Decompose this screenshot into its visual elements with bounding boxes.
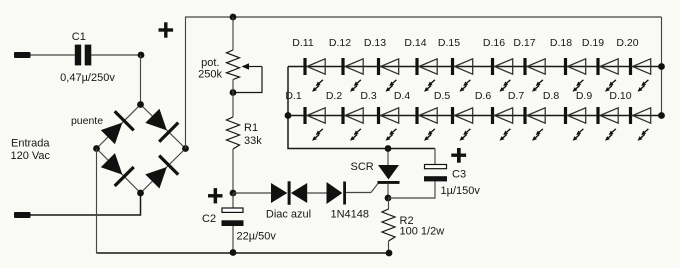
node: bridge top: [137, 101, 144, 108]
wire: [91, 54, 141, 56]
svg-text:D.18: D.18: [550, 37, 572, 49]
node: right column top row: [658, 63, 665, 70]
LED D.9: [576, 90, 618, 141]
LED D.14: [404, 37, 437, 92]
wire: [31, 54, 75, 56]
LED D.20: [616, 37, 650, 92]
diode bridge bottom-left: [98, 151, 135, 188]
svg-text:D.6: D.6: [475, 90, 492, 102]
LED D.4: [394, 90, 437, 141]
svg-text:C1: C1: [72, 31, 86, 43]
diode bridge bottom-right: [143, 154, 180, 191]
wire: bridge minus down: [96, 149, 98, 254]
LED D.10: [609, 90, 650, 141]
svg-text:Diac azul: Diac azul: [266, 209, 311, 221]
LED D.12: [329, 37, 363, 92]
svg-text:SCR: SCR: [351, 161, 374, 173]
wire: top LED row: [288, 66, 662, 68]
svg-text:D.19: D.19: [582, 37, 604, 49]
svg-text:Entrada: Entrada: [11, 138, 50, 150]
svg-text:D.1: D.1: [285, 90, 302, 102]
terminal: AC input line 2: [14, 212, 31, 218]
wire: bridge plus up to top rail: [186, 17, 662, 149]
LED D.3: [360, 90, 398, 141]
LED D.2: [326, 90, 363, 141]
svg-text:D.10: D.10: [609, 90, 631, 102]
svg-text:0,47µ/250v: 0,47µ/250v: [60, 72, 115, 84]
svg-text:C2: C2: [202, 213, 216, 225]
svg-text:D.9: D.9: [576, 90, 593, 102]
svg-text:C3: C3: [452, 169, 466, 181]
diac Diac azul: [266, 181, 311, 220]
svg-text:22µ/50v: 22µ/50v: [237, 231, 277, 243]
svg-text:1N4148: 1N4148: [331, 209, 370, 221]
LED D.8: [543, 90, 586, 141]
wire: bridge edge left-top: [97, 105, 141, 149]
svg-text:D.4: D.4: [394, 90, 411, 102]
node: right column bottom row: [658, 112, 665, 119]
svg-text:D.14: D.14: [404, 37, 426, 49]
svg-text:D.5: D.5: [434, 90, 451, 102]
svg-text:D.17: D.17: [513, 37, 535, 49]
LED D.13: [364, 37, 399, 92]
node: bridge right: [182, 145, 189, 152]
wire: right column: [661, 17, 663, 116]
svg-text:250k: 250k: [198, 69, 222, 81]
svg-text:pot.: pot.: [201, 57, 219, 69]
svg-text:1µ/150v: 1µ/150v: [441, 185, 481, 197]
svg-text:33k: 33k: [244, 135, 262, 147]
LED D.5: [434, 90, 473, 141]
svg-text:D.16: D.16: [483, 37, 505, 49]
wire: [232, 80, 234, 118]
plus sign C2 polarity: [208, 188, 223, 203]
wire: [346, 192, 371, 194]
diode 1N4148: [327, 182, 370, 221]
node: left column bottom row: [285, 112, 292, 119]
wire: bottom rail: [97, 252, 390, 254]
wire: [233, 192, 271, 194]
wire: LED array left column to SCR rail: [288, 116, 435, 149]
wire: bottom LED row: [288, 115, 662, 117]
wire: LED array left column: [287, 67, 289, 116]
LED D.18: [550, 37, 586, 92]
capacitor C2 22u/50v: [202, 193, 276, 253]
wire: bridge edge left-bottom: [97, 149, 141, 194]
svg-text:D.20: D.20: [616, 37, 638, 49]
plus sign: rectified positive: [159, 22, 174, 37]
LED D.17: [513, 37, 545, 92]
diode bridge top-right: [143, 106, 180, 143]
svg-text:D.7: D.7: [508, 90, 525, 102]
wire: [307, 192, 326, 194]
LED D.15: [438, 37, 473, 92]
node: C1 to bridge top: [138, 52, 145, 59]
node: R2 on bottom rail: [386, 250, 393, 257]
potentiometer pot. 250k: [198, 50, 262, 93]
svg-text:100 1/2w: 100 1/2w: [400, 226, 445, 238]
node: C2 on bottom rail: [230, 249, 237, 256]
capacitor C3 1u/150v: [388, 149, 480, 199]
svg-text:D.11: D.11: [292, 37, 314, 49]
wire: bridge edge top-right: [141, 105, 186, 149]
thyristor SCR: [351, 149, 400, 199]
LED D.1: [285, 90, 325, 141]
wire: bridge edge bottom-right: [141, 149, 186, 194]
LED D.6: [475, 90, 513, 141]
svg-text:D.3: D.3: [360, 90, 377, 102]
wire: SCR gate: [371, 183, 379, 193]
LED D.11: [292, 37, 325, 92]
wire: [232, 149, 234, 193]
svg-text:D.13: D.13: [364, 37, 386, 49]
LED D.19: [582, 37, 618, 92]
svg-text:120 Vac: 120 Vac: [11, 150, 51, 162]
node: SCR cathode / R2 / C3 junction: [385, 195, 392, 202]
node: bridge left: [93, 145, 100, 152]
svg-text:D.8: D.8: [543, 90, 560, 102]
capacitor C1 0,47u/250v: [60, 31, 115, 84]
svg-text:D.12: D.12: [329, 37, 351, 49]
node: bridge bottom: [137, 190, 144, 197]
node: SCR anode on rail: [385, 145, 392, 152]
diode bridge top-left: [98, 110, 135, 147]
node: top rail to pot branch: [230, 14, 237, 21]
svg-text:puente: puente: [71, 115, 103, 127]
svg-text:D.2: D.2: [326, 90, 343, 102]
node: wiper tap: [230, 89, 237, 96]
wire: [232, 17, 234, 50]
wire: [31, 193, 141, 215]
LED D.16: [483, 37, 513, 92]
resistor R1 33k: [227, 117, 263, 149]
plus sign C3 polarity: [451, 148, 466, 163]
terminal: AC input line 1: [14, 52, 31, 58]
label Entrada 120 Vac: [11, 138, 51, 163]
svg-text:R1: R1: [244, 122, 258, 134]
svg-text:D.15: D.15: [438, 37, 460, 49]
wire: [140, 55, 142, 105]
resistor R2 100 1/2w: [382, 198, 444, 253]
node: R1 / C2 / diac junction: [230, 190, 237, 197]
LED D.7: [508, 90, 545, 141]
